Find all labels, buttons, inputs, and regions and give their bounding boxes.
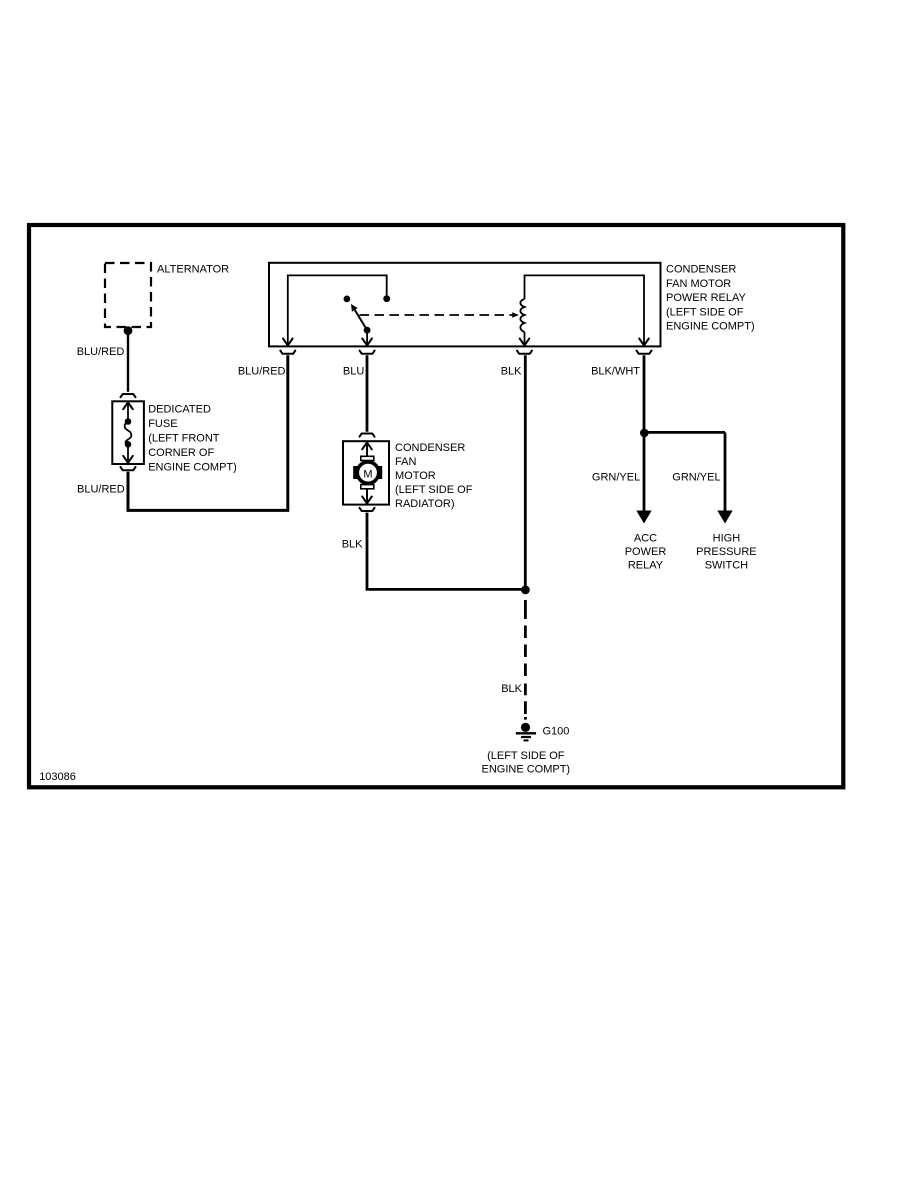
svg-text:HIGH: HIGH bbox=[713, 533, 741, 545]
svg-text:G100: G100 bbox=[543, 726, 570, 738]
svg-text:MOTOR: MOTOR bbox=[395, 470, 436, 482]
svg-text:CONDENSER: CONDENSER bbox=[666, 264, 736, 276]
svg-text:ALTERNATOR: ALTERNATOR bbox=[157, 263, 229, 275]
svg-text:RADIATOR): RADIATOR) bbox=[395, 498, 455, 510]
svg-text:BLK: BLK bbox=[342, 539, 363, 551]
svg-text:BLU: BLU bbox=[343, 366, 364, 378]
svg-text:CONDENSER: CONDENSER bbox=[395, 442, 465, 454]
svg-text:RELAY: RELAY bbox=[628, 559, 664, 571]
svg-text:(LEFT FRONT: (LEFT FRONT bbox=[148, 433, 220, 445]
svg-text:CORNER OF: CORNER OF bbox=[148, 447, 214, 459]
svg-text:POWER RELAY: POWER RELAY bbox=[666, 292, 747, 304]
svg-text:M: M bbox=[363, 469, 372, 481]
svg-text:PRESSURE: PRESSURE bbox=[696, 546, 757, 558]
svg-text:(LEFT SIDE OF: (LEFT SIDE OF bbox=[487, 750, 565, 762]
svg-text:ENGINE COMPT): ENGINE COMPT) bbox=[666, 321, 755, 333]
svg-text:(LEFT SIDE OF: (LEFT SIDE OF bbox=[666, 306, 744, 318]
svg-text:POWER: POWER bbox=[625, 546, 667, 558]
svg-text:(LEFT SIDE OF: (LEFT SIDE OF bbox=[395, 484, 473, 496]
svg-text:DEDICATED: DEDICATED bbox=[148, 404, 211, 416]
svg-text:FUSE: FUSE bbox=[148, 418, 177, 430]
svg-text:BLU/RED: BLU/RED bbox=[238, 366, 286, 378]
svg-text:BLK: BLK bbox=[501, 683, 522, 695]
svg-text:BLU/RED: BLU/RED bbox=[77, 346, 125, 358]
svg-text:FAN MOTOR: FAN MOTOR bbox=[666, 278, 731, 290]
svg-text:103086: 103086 bbox=[39, 771, 76, 783]
svg-text:ENGINE COMPT): ENGINE COMPT) bbox=[481, 764, 570, 776]
svg-text:FAN: FAN bbox=[395, 456, 416, 468]
svg-text:GRN/YEL: GRN/YEL bbox=[592, 472, 640, 484]
svg-text:SWITCH: SWITCH bbox=[705, 559, 748, 571]
svg-text:BLU/RED: BLU/RED bbox=[77, 483, 125, 495]
svg-text:ACC: ACC bbox=[634, 533, 657, 545]
svg-text:GRN/YEL: GRN/YEL bbox=[672, 472, 720, 484]
svg-text:BLK/WHT: BLK/WHT bbox=[591, 366, 640, 378]
svg-text:ENGINE COMPT): ENGINE COMPT) bbox=[148, 462, 237, 474]
svg-text:BLK: BLK bbox=[501, 366, 522, 378]
